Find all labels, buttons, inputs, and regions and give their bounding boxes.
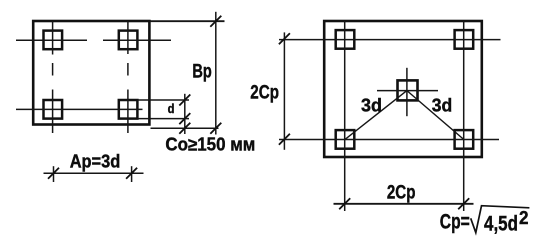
axis line: right pile column (left figure) (127, 21, 129, 133)
tick on Ap dimension (right) (126, 168, 137, 179)
pile P4 (bottom-right) (119, 100, 138, 119)
dimension line Bp (vertical) (215, 12, 217, 135)
axis line: right pile column (right figure) (463, 21, 465, 211)
pile cap outline (right figure) (324, 21, 482, 157)
svg-text:Ap=3d: Ap=3d (70, 151, 121, 172)
tick on Ap dimension (left) (48, 168, 59, 179)
pile cap outline (left figure) (33, 21, 149, 125)
tick on 2Cp horizontal (left) (339, 198, 350, 209)
dimension line 2Cp (vertical, left of right figure) (283, 32, 285, 149)
dimension line Ap=3d (horizontal) (44, 172, 144, 174)
extension tick right (Ap) (131, 166, 133, 182)
tick on Co dimension (left) (179, 123, 190, 134)
svg-text:4,5d: 4,5d (484, 213, 518, 236)
pile P1 (top-left) (44, 31, 63, 50)
svg-text:3d: 3d (432, 96, 453, 116)
svg-text:d: d (168, 101, 175, 116)
axis line: center pile vertical (406, 68, 408, 116)
axis line: bottom pile row (left figure) (16, 108, 143, 110)
extension line: bottom of pile d (138, 118, 190, 120)
axis line: left pile column (left figure) (52, 21, 54, 133)
axis line: top pile row (right figure) (279, 39, 501, 41)
axis line: bottom pile row (right figure) (279, 139, 499, 141)
pile P9 (center) (398, 80, 418, 100)
tick on d dimension (top) (179, 95, 190, 106)
svg-text:Bp: Bp (192, 61, 211, 82)
pile P7 (bottom-left) (336, 130, 355, 149)
svg-text:2Cp: 2Cp (250, 83, 279, 104)
pile P8 (bottom-right) (455, 130, 474, 149)
tick on 2Cp horizontal (right) (458, 198, 469, 209)
tick on 2Cp vertical (bottom) (279, 134, 290, 145)
svg-text:Co≥150 мм: Co≥150 мм (165, 134, 255, 154)
dimension line 2Cp (horizontal, below right figure) (334, 203, 474, 205)
axis line: top pile row (left figure) (16, 39, 171, 41)
dimension line Co (horizontal) (151, 127, 219, 129)
tick on 2Cp vertical (top) (279, 33, 290, 44)
pile P3 (bottom-left) (44, 100, 63, 119)
svg-text:3d: 3d (361, 96, 382, 116)
axis line: center pile horizontal (377, 90, 438, 92)
tick on Bp dimension (top) (210, 16, 221, 27)
tick on Co dimension (right) (210, 123, 221, 134)
svg-text:Cp=: Cp= (440, 211, 470, 234)
extension line: top of cap to Bp line (149, 20, 224, 22)
axis line: left pile column (right figure) (344, 21, 346, 211)
svg-text:2Cp: 2Cp (387, 182, 416, 204)
pile P5 (top-left) (336, 30, 355, 49)
diagonal 3d line (right) (407, 91, 464, 140)
pile P2 (top-right) (119, 31, 138, 50)
extension tick left (Ap) (53, 166, 55, 182)
extension line: top of pile d (138, 99, 190, 101)
tick on d dimension (bottom) (179, 113, 190, 124)
diagonal 3d line (left) (345, 91, 407, 140)
svg-text:2: 2 (519, 208, 529, 228)
pile P6 (top-right) (455, 30, 474, 49)
radical sign of formula (471, 206, 530, 233)
dimension line d (vertical) (184, 94, 186, 134)
